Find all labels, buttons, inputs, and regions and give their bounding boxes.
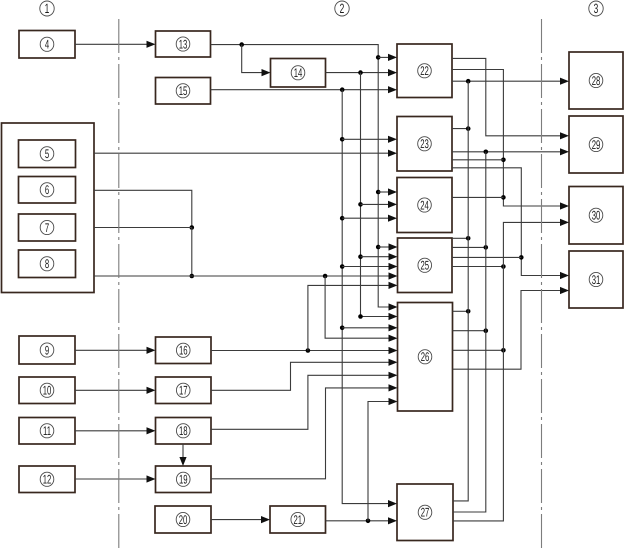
junction block15 bus to block23 — [340, 137, 345, 142]
block 19 — [156, 466, 212, 493]
junction block26 output1 on bus x468 — [466, 309, 471, 314]
wire block25 output1 to bus x486 — [452, 246, 486, 248]
svg-text:28: 28 — [592, 74, 601, 88]
wire branch into block25 input2 — [361, 256, 390, 258]
junction block28 line with bus x468 — [466, 79, 471, 84]
svg-text:4: 4 — [45, 38, 49, 52]
wire block23 output4 to bus x521 — [452, 168, 561, 276]
svg-text:12: 12 — [43, 473, 52, 487]
arrowhead into block24 input2 — [388, 201, 397, 208]
arrowhead into block17 — [147, 387, 156, 394]
wire block23 output2 to block29 input2 — [452, 151, 561, 153]
arrowhead into block26 input7 — [389, 372, 398, 379]
block 18 — [156, 418, 212, 445]
junction bus x521 with block25 output — [519, 255, 524, 260]
arrowhead into block16 — [147, 347, 156, 354]
arrowhead into block26 input3 — [389, 324, 398, 331]
block 16 — [156, 337, 212, 364]
junction block13 bus to block22 — [376, 55, 381, 60]
block 24 — [397, 178, 452, 233]
wire block25 output3 to bus x503 — [452, 266, 503, 268]
junction block26 output2 on bus x486 — [484, 328, 489, 333]
junction block14 bus end corner — [358, 314, 363, 319]
block 20 — [155, 506, 211, 533]
arrowhead into block19 — [147, 475, 156, 482]
section divider dash-dot line right — [541, 19, 543, 550]
wire block14 bus down x360 — [361, 73, 390, 317]
wire branch up x368 to block26 input9 — [368, 402, 390, 521]
wire block15 output to block22 input3 — [211, 89, 390, 91]
wire block27 output1 bus x468 up to block28 line — [453, 81, 468, 501]
junction block25 output1 on bus x486 — [484, 245, 489, 250]
wire block26 output3 to bus x503 — [453, 349, 504, 351]
arrowhead into block25 input2 — [389, 253, 398, 260]
junction block15 bus to block25 — [340, 264, 345, 269]
block 26 — [398, 303, 453, 412]
wire block10 to block17 — [75, 389, 147, 391]
block 25 — [398, 238, 453, 293]
block 15 — [156, 78, 211, 105]
wire branch into block26 input3 — [342, 327, 389, 329]
svg-text:25: 25 — [420, 259, 429, 273]
wire block22 output3 to block28 — [452, 80, 561, 82]
arrowhead into block13 — [147, 41, 156, 48]
arrowhead into block30 input2 — [560, 219, 569, 226]
svg-text:17: 17 — [179, 384, 188, 398]
arrowhead into block30 input1 — [560, 202, 569, 209]
block 23 — [397, 117, 452, 172]
svg-text:1: 1 — [45, 1, 50, 16]
wire block16 output to block26 input5 — [211, 350, 390, 352]
wire block26 output4 up to block31 input2 — [453, 291, 561, 370]
junction block15 bus to block24 — [340, 216, 345, 221]
arrowhead into block23 input1 — [388, 136, 397, 143]
junction block14 bus to block25 — [358, 254, 363, 259]
wire block8 row to block25 input4 — [94, 275, 390, 277]
arrowhead into block25 input1 — [389, 243, 398, 250]
svg-text:19: 19 — [179, 473, 188, 487]
junction block26 output3 on bus x503 — [501, 348, 506, 353]
svg-text:9: 9 — [45, 343, 49, 357]
arrowhead into block31 input2 — [560, 287, 569, 294]
wire block17 output up to block26 input6 — [211, 362, 390, 390]
section divider dash-dot line left — [118, 19, 120, 550]
arrowhead into block27 input2 — [388, 517, 397, 524]
wire branch into block25 input3 — [342, 266, 389, 268]
block 22 — [397, 44, 452, 98]
svg-text:16: 16 — [179, 344, 188, 358]
svg-text:5: 5 — [45, 147, 49, 161]
arrowhead into block27 input1 — [388, 500, 397, 507]
svg-text:18: 18 — [179, 424, 188, 438]
svg-text:15: 15 — [179, 84, 188, 98]
wire block22 output2 to bus x503 upper — [452, 70, 561, 207]
wire block18 down to block19 — [182, 444, 184, 458]
wire block21 output to block27 input2 — [326, 520, 390, 522]
wire branch into block24 input3 — [342, 217, 389, 219]
arrowhead into block18 — [147, 427, 156, 434]
junction block15 line at bus x342 — [340, 87, 345, 92]
arrowhead into block26 input5 — [389, 347, 398, 354]
junction block14 bus to block24 — [358, 202, 363, 207]
arrowhead into block25 input4 — [389, 272, 398, 279]
svg-text:11: 11 — [43, 424, 51, 438]
junction on block13 line at branch to block14 — [239, 42, 244, 47]
arrowhead into block21 — [261, 516, 270, 523]
svg-text:26: 26 — [421, 350, 430, 364]
svg-text:8: 8 — [45, 257, 49, 271]
svg-text:10: 10 — [43, 384, 52, 398]
wire block22 output1 to block29 input1 — [452, 58, 561, 135]
arrowhead into block22 input1 — [388, 54, 397, 61]
arrowhead into block26 input6 — [389, 359, 398, 366]
arrowhead into block26 input9 — [389, 398, 398, 405]
wire block25 output2 to bus x521 — [452, 256, 521, 258]
svg-text:20: 20 — [179, 513, 188, 527]
arrowhead into block25 input3 — [389, 263, 398, 270]
block 9 — [19, 336, 75, 364]
arrowhead into block26 input8 — [389, 384, 398, 391]
wire block23 output1 to bus x468 — [452, 128, 468, 130]
junction block13 bus to block24 — [376, 190, 381, 195]
svg-text:23: 23 — [420, 137, 429, 151]
wire block14 output to block22 input2 — [326, 72, 390, 74]
svg-text:13: 13 — [179, 37, 188, 51]
junction block23 output1 on bus x468 — [466, 126, 471, 131]
section label 3 — [589, 1, 603, 16]
wire block23 output3 to bus x503 — [452, 159, 503, 161]
wire block27 output2 bus x486 up to block29 line — [453, 152, 486, 512]
junction block13 bus to block25 — [376, 245, 381, 250]
block 31 — [569, 251, 623, 308]
block 29 — [569, 116, 623, 173]
wire block13 output to vertical bus x378 — [211, 45, 390, 307]
wire bus x192 down to block8 row — [191, 228, 193, 277]
junction bus x503 with block23 output3 — [501, 158, 506, 163]
svg-text:3: 3 — [594, 1, 599, 16]
block 10 — [19, 377, 75, 404]
svg-text:14: 14 — [294, 66, 303, 80]
svg-text:27: 27 — [421, 506, 430, 520]
arrowhead down into block19 — [179, 457, 186, 466]
wire branch down x325 to block26 input4 — [325, 276, 389, 338]
wire block12 to block19 — [75, 478, 147, 480]
arrowhead into block26 input1 — [389, 303, 398, 310]
wire block18 output up to block26 input7 — [211, 375, 390, 429]
section label 2 — [335, 1, 349, 16]
container box around blocks 5-8 — [2, 123, 95, 293]
wire branch up x308 to block25 input5 — [308, 285, 390, 350]
arrowhead into block24 input3 — [388, 215, 397, 222]
arrowhead into block23 input2 — [388, 150, 397, 157]
block 6 — [19, 177, 76, 204]
block 4 — [19, 31, 75, 59]
block 8 — [19, 250, 76, 278]
wire block6 row to bus x192 — [94, 190, 192, 227]
block 12 — [19, 466, 75, 493]
block 13 — [156, 31, 211, 57]
wire block26 output1 to bus x468 — [453, 310, 469, 312]
block 5 — [19, 140, 76, 168]
junction block15 bus to block26 — [340, 326, 345, 331]
junction block25 output3 on bus x503 — [501, 264, 506, 269]
wire branch into block22 input1 — [378, 56, 389, 58]
block 30 — [569, 187, 623, 245]
wire block27 output3 bus x503 up to block30 input2 — [453, 222, 561, 521]
arrowhead into block25 input5 — [389, 282, 398, 289]
junction block14 line at bus x360 — [358, 70, 363, 75]
svg-text:29: 29 — [592, 138, 601, 152]
wire branch into block24 input1 — [378, 191, 389, 193]
arrowhead into block31 input1 — [560, 272, 569, 279]
wire block19 output up to block26 input8 — [211, 388, 390, 479]
block 11 — [19, 418, 75, 445]
wire block25 output top to bus x468 — [452, 237, 468, 239]
wire block20 to block21 — [211, 519, 262, 521]
wire branch into block23 input1 — [342, 138, 389, 140]
block 14 — [271, 59, 326, 88]
svg-text:21: 21 — [293, 513, 302, 527]
svg-text:24: 24 — [420, 198, 429, 212]
junction block8 row branch x325 — [323, 274, 328, 279]
wire block5 row to block23 input2 — [94, 152, 389, 154]
arrowhead into block24 input1 — [388, 188, 397, 195]
svg-text:7: 7 — [45, 221, 49, 235]
svg-text:30: 30 — [592, 209, 601, 223]
wire branch into block24 input2 — [361, 203, 390, 205]
junction block29 line with bus x486 — [484, 150, 489, 155]
block 7 — [19, 214, 76, 241]
wire block7 row — [94, 227, 192, 229]
junction block25 top output on bus x468 — [466, 236, 471, 241]
wire block11 to block18 — [75, 430, 147, 432]
arrowhead into block22 input3 — [388, 86, 397, 93]
wire block9 to block16 — [75, 349, 147, 351]
section label 1 — [40, 1, 54, 16]
arrowhead into block29 input2 — [560, 148, 569, 155]
block 21 — [270, 506, 326, 533]
junction block16 line branch up x308 — [306, 348, 311, 353]
arrowhead into block26 input2 — [389, 313, 398, 320]
svg-text:2: 2 — [340, 1, 345, 16]
svg-text:22: 22 — [420, 64, 429, 78]
svg-text:6: 6 — [45, 183, 49, 197]
arrowhead into block14 — [262, 69, 271, 76]
svg-text:31: 31 — [592, 273, 601, 287]
wire block15 bus down x342 to block27 — [342, 90, 389, 504]
block 28 — [569, 52, 623, 109]
wire branch down to block14 — [242, 45, 262, 73]
arrowhead into block28 input — [560, 78, 569, 85]
junction block7 joins bus x192 — [190, 225, 195, 230]
wire block26 output2 to bus x486 — [453, 330, 486, 332]
junction bus x503 with block24 output — [501, 195, 506, 200]
arrowhead into block22 input2 — [388, 69, 397, 76]
arrowhead into block26 input4 — [389, 335, 398, 342]
wire branch into block25 input1 — [378, 246, 389, 248]
junction block21 line branch x368 — [366, 519, 371, 524]
block 17 — [156, 377, 212, 404]
arrowhead into block29 input1 — [560, 132, 569, 139]
wire block4 to block13 — [75, 43, 147, 45]
wire block24 output to bus x503 — [452, 196, 503, 198]
junction bus x192 on block8 row — [190, 274, 195, 279]
block 27 — [397, 484, 453, 541]
